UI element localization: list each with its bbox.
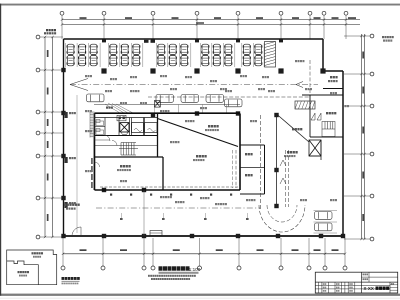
car (parked, top row): [243, 44, 250, 54]
core outer wall right: [239, 114, 241, 191]
right grid dimension lines: [361, 34, 363, 239]
car (parked, top row): [169, 55, 176, 65]
hatched pit: [295, 101, 315, 109]
car (parked, top row): [255, 44, 262, 54]
grid circle (top): [102, 11, 106, 15]
grid circle (bottom): [307, 266, 311, 270]
car (parked, top row): [79, 44, 86, 54]
cell texts: [323, 283, 325, 285]
bottom aisle dash line: [96, 207, 260, 209]
annotation specks: [160, 196, 162, 198]
right annex rooms: [240, 144, 265, 146]
drawing title text: [159, 266, 163, 270]
car (parked, right): [315, 223, 333, 231]
page frame bottom bar: [0, 294, 400, 296]
leader line bundle: [105, 103, 133, 113]
left grid dimension lines: [44, 37, 46, 237]
grid circle (bottom): [142, 266, 146, 270]
grid circle (left): [36, 154, 40, 158]
grid circle (left): [36, 110, 40, 114]
grid circle (top): [60, 11, 64, 15]
parking bay lines: [65, 43, 67, 67]
parking bay divider: [314, 210, 338, 212]
top-right cells: [362, 276, 398, 278]
ramp diagonal: [277, 114, 310, 142]
top grid dimension lines: [62, 19, 360, 21]
small note text top-left: [46, 29, 48, 31]
upper right room wall: [323, 88, 343, 90]
misc fixtures: [150, 231, 162, 236]
grid circle (left): [36, 68, 40, 72]
car (parked, top row): [225, 55, 232, 65]
aisle chevron left: [70, 79, 88, 85]
grid circle (left): [36, 196, 40, 200]
dim text column left of core: [91, 158, 93, 164]
door arcs: [104, 135, 110, 141]
ramp label: [292, 128, 294, 130]
right mini rows: [390, 284, 398, 286]
compartment 2 label: [18, 271, 20, 273]
car (parked, right): [315, 212, 333, 220]
hatched shaft: [265, 42, 276, 68]
right section wall: [302, 94, 343, 96]
elevator shaft: [120, 123, 129, 132]
grid circle (top): [151, 11, 155, 15]
aisle arrow: [296, 82, 303, 85]
top wall column stubs: [102, 39, 106, 42]
car (parked, top row): [158, 55, 165, 65]
door arc bottom-left: [72, 227, 81, 236]
car (parked, top row): [202, 44, 209, 54]
structural columns: [101, 68, 106, 73]
grid circle (bottom): [237, 266, 241, 270]
grid circle (top): [195, 11, 199, 15]
page frame top bar: [0, 4, 400, 6]
title block top band divider: [315, 281, 397, 283]
left inner line: [76, 95, 78, 233]
car (parked, middle row): [156, 95, 174, 103]
car (parked, top row): [255, 55, 262, 65]
small shaft with X: [155, 101, 161, 108]
car (parked, top row): [121, 44, 128, 54]
grid circle (right): [370, 152, 374, 156]
car (parked, top row): [213, 55, 220, 65]
small cells verticals: [104, 118, 106, 136]
svg-text:1:100: 1:100: [189, 267, 201, 272]
pipe line dashed: [148, 96, 310, 98]
car (parked, top row): [169, 44, 176, 54]
ramp arrows: [280, 160, 286, 166]
grid circle (bottom): [61, 266, 65, 270]
grid circle (bottom): [279, 266, 283, 270]
car (parked, top row): [67, 44, 74, 54]
core outer wall bottom: [95, 189, 241, 191]
grid leader inside: [143, 190, 145, 236]
car (parked, middle row): [181, 95, 199, 103]
bottom band rows: [315, 285, 390, 287]
pipe dashes core bottom: [100, 186, 240, 188]
car (parked, top row): [121, 55, 128, 65]
grid circle (bottom): [151, 266, 155, 270]
grid circle (left): [36, 35, 40, 39]
building left wall: [63, 39, 65, 236]
core inner wall vertical: [157, 113, 159, 157]
washroom fixtures: [95, 126, 106, 128]
svg-text:X-XX: X-XX: [364, 286, 374, 291]
grid circle (top): [308, 11, 312, 15]
notes text: [148, 275, 150, 277]
car (parked, top row): [90, 44, 97, 54]
building wall step: [323, 70, 343, 72]
machine room cells: [132, 123, 144, 133]
grid circle (right): [370, 72, 374, 76]
ramp wall vertical: [276, 114, 278, 207]
grid circle (top): [344, 11, 348, 15]
building top wall: [64, 38, 324, 40]
grid circle (bottom): [323, 266, 327, 270]
ramp dashed edge: [260, 115, 262, 210]
corridor wall: [95, 156, 164, 158]
building right wall upper: [322, 39, 324, 71]
grid circle (top): [322, 11, 326, 15]
car (parked, top row): [225, 44, 232, 54]
grid circle (right): [370, 34, 374, 38]
bottom dimension line: [63, 253, 345, 255]
corridor line: [95, 145, 158, 147]
core outer wall top: [95, 112, 241, 114]
elevator shaft: [309, 140, 321, 156]
compartment 1 label: [32, 252, 34, 254]
lift lobby wall: [309, 155, 321, 157]
core outer wall left: [94, 113, 96, 190]
grid circle (left): [36, 235, 40, 239]
dimension numbers (top): [80, 17, 87, 19]
grid circle (left): [36, 131, 40, 135]
car (parked, top row): [181, 55, 188, 65]
drive aisle centerline: [70, 84, 318, 86]
stair steps: [119, 143, 138, 156]
grid circle (right): [370, 237, 374, 241]
title block outer: [315, 272, 397, 293]
tiny text top-right: [382, 36, 384, 38]
ramp U-turn dashed curve: [259, 205, 305, 232]
floor drain marks: [110, 194, 112, 196]
car (parked, top row): [90, 55, 97, 65]
room labels right: [208, 125, 210, 128]
bottom band columns: [318, 282, 320, 293]
grid circle (bottom): [198, 266, 202, 270]
car (parked, top row): [133, 44, 140, 54]
room label bottom-left: [64, 204, 66, 206]
door triangles: [311, 113, 315, 120]
car (parked, top row): [158, 44, 165, 54]
toilet stalls: [322, 122, 335, 137]
grid circle (right): [370, 194, 374, 198]
car (parked, middle row): [225, 99, 243, 107]
aisle symbols: [120, 218, 123, 220]
fire compartment inset outline: [7, 250, 57, 285]
car (parked, middle row): [87, 94, 105, 102]
car (parked, top row): [67, 55, 74, 65]
grid circle (right): [370, 104, 374, 108]
car (parked, top row): [79, 55, 86, 65]
room top subdivide: [95, 117, 158, 119]
building right wall: [342, 71, 344, 236]
car (parked, top row): [243, 55, 250, 65]
grid circle (top): [236, 11, 240, 15]
grid circle (top): [279, 11, 283, 15]
grid circle (bottom): [343, 266, 347, 270]
room labels: [330, 76, 332, 78]
hydrant boxes on left wall: [65, 112, 68, 118]
car (parked, top row): [110, 44, 117, 54]
ramp diagonal wall: [158, 119, 239, 147]
car (parked, top row): [110, 55, 117, 65]
car (parked, top row): [213, 44, 220, 54]
room wall vertical: [162, 157, 164, 190]
car (parked, top row): [133, 55, 140, 65]
car (parked, middle row): [206, 95, 224, 103]
big room label: [120, 165, 122, 168]
wall marks: [144, 40, 149, 43]
car (parked, top row): [181, 44, 188, 54]
grid circle (bottom): [101, 266, 105, 270]
parking bay edge above core: [94, 104, 240, 106]
inset caption: [62, 277, 65, 280]
car (parked, top row): [202, 55, 209, 65]
stairwell hatch (left strip): [90, 112, 95, 138]
page frame left line: [0, 4, 1, 296]
building bottom wall: [64, 235, 344, 237]
fire compartment divider: [7, 261, 39, 285]
dashed pipe in right room: [235, 150, 237, 188]
